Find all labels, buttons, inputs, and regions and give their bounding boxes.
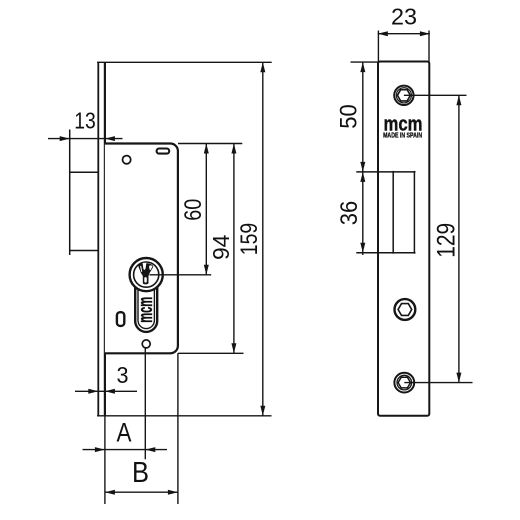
arrow 3 left xyxy=(88,389,98,394)
euro cylinder outer circle xyxy=(130,258,163,291)
ext line faceplate top xyxy=(97,61,272,63)
latch opening top line / ext 36 top xyxy=(356,171,415,173)
latch opening left edge xyxy=(392,171,394,254)
ext line faceplate bottom xyxy=(97,415,272,417)
arrow 36 top xyxy=(360,172,365,182)
leader line top screw xyxy=(404,94,467,96)
arrow 129 top xyxy=(456,95,461,105)
dim line 60 xyxy=(205,144,207,275)
arrow A left xyxy=(95,447,105,452)
faceplate front edge right line xyxy=(104,62,106,416)
small slot left in case xyxy=(117,312,124,326)
keyway silhouette xyxy=(138,263,153,284)
latch opening bottom line / ext 36 bottom xyxy=(356,252,415,254)
lock case edge-view box xyxy=(70,172,99,250)
arrow 159 top xyxy=(260,62,265,72)
arrow B right xyxy=(168,490,178,495)
leader line bottom screw xyxy=(404,382,472,384)
arrow 94 bottom xyxy=(231,343,236,353)
ext line plate left above xyxy=(377,31,379,62)
svg-text:3: 3 xyxy=(117,362,129,388)
latch opening right edge xyxy=(413,171,415,254)
ext line case top xyxy=(178,143,242,145)
arrow 50 bottom xyxy=(360,162,365,172)
dim line 94 xyxy=(233,144,235,354)
svg-text:23: 23 xyxy=(391,3,417,29)
lock case edge-view left edge / ext line 13 xyxy=(69,130,71,256)
arrow A right xyxy=(145,447,155,452)
arrow 23 left xyxy=(378,31,388,36)
euro cylinder inner circle xyxy=(134,262,159,287)
arrow 60 top xyxy=(204,144,209,154)
svg-text:13: 13 xyxy=(74,108,96,134)
arrow 60 bottom xyxy=(204,265,209,275)
svg-text:A: A xyxy=(117,417,132,447)
svg-text:129: 129 xyxy=(432,223,460,258)
case screw hole xyxy=(123,156,131,164)
svg-text:MADE IN SPAIN: MADE IN SPAIN xyxy=(383,133,422,140)
ext line plate top left xyxy=(351,61,379,63)
arrow 13 left xyxy=(60,136,70,141)
keyway channel white xyxy=(143,263,147,270)
arrow 129 bottom xyxy=(456,373,461,383)
dim line 129 xyxy=(458,95,460,382)
svg-text:50: 50 xyxy=(335,104,362,129)
svg-text:mcm: mcm xyxy=(135,297,157,323)
top slot in case xyxy=(157,149,170,154)
leader line cylinder center xyxy=(150,274,212,276)
dim line 13 xyxy=(48,138,123,140)
euro cylinder body outer xyxy=(135,278,157,332)
keyway right notch white xyxy=(149,265,152,270)
svg-text:36: 36 xyxy=(336,201,363,226)
small hole below cylinder xyxy=(142,340,150,348)
ext line B right (case edge) xyxy=(177,353,179,504)
dim line B xyxy=(105,491,178,493)
ext line case bottom xyxy=(178,352,244,354)
arrow 50 top xyxy=(360,62,365,72)
keyway stem slit white xyxy=(144,277,147,283)
arrow 3 right xyxy=(105,389,115,394)
ext line plate right above xyxy=(428,31,430,62)
dim line 50 xyxy=(362,62,364,172)
lock case front view outline xyxy=(105,144,178,354)
svg-text:60: 60 xyxy=(180,199,207,221)
svg-text:B: B xyxy=(132,457,149,489)
ext line cylinder axis xyxy=(144,348,146,459)
dim line 36 xyxy=(362,163,364,255)
euro cylinder body inner line xyxy=(138,280,154,329)
arrow 36 bottom xyxy=(360,243,365,253)
dim line 23 xyxy=(378,33,430,35)
svg-text:94: 94 xyxy=(208,235,234,260)
dim line 3 xyxy=(75,390,137,392)
screw hole middle xyxy=(395,299,416,320)
arrow 94 top xyxy=(231,144,236,154)
arrow 23 right xyxy=(420,31,430,36)
strike plate outline xyxy=(378,62,429,416)
svg-text:159: 159 xyxy=(236,223,263,256)
faceplate front edge left line xyxy=(97,62,99,416)
dim line A xyxy=(83,449,168,451)
ext line A left (faceplate) xyxy=(104,416,106,504)
dim line 159 xyxy=(262,62,264,416)
arrow 159 bottom xyxy=(260,406,265,416)
arrow B left xyxy=(105,490,115,495)
screw hole bottom xyxy=(394,373,414,393)
keyway left sliver white xyxy=(140,266,142,272)
screw hole top xyxy=(394,86,413,105)
arrow 13 right xyxy=(105,136,115,141)
